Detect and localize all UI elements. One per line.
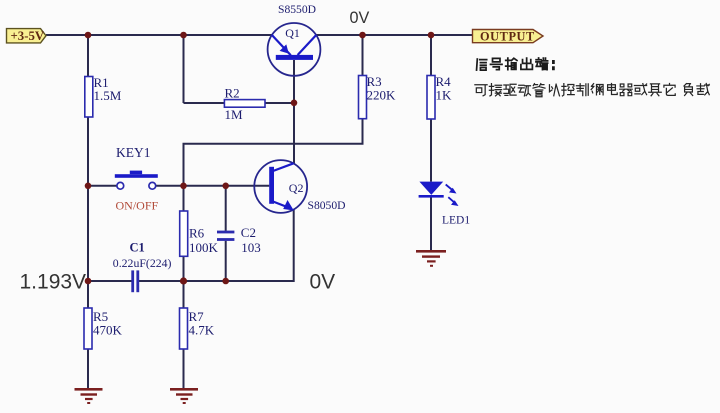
wire R6 leads	[183, 186, 185, 211]
resistor R1	[85, 75, 122, 117]
wire KEY1 to Q2 base	[156, 185, 269, 187]
wire R3 top lead	[362, 35, 364, 76]
junction C2 top / Q2 base wire	[222, 183, 229, 190]
junction +V rail / R2 branch	[180, 32, 187, 39]
wire C2 leads	[225, 186, 227, 231]
annotation chinese body 可接驱动管以控制继电器或其它 负载	[475, 83, 709, 96]
transistor Q1 (S8550D PNP)	[268, 3, 321, 76]
svg-text:R2: R2	[225, 86, 240, 101]
ground under R7	[170, 388, 198, 404]
power tag +3-5V	[7, 29, 47, 43]
svg-text:Q1: Q1	[285, 26, 300, 40]
svg-text:S8550D: S8550D	[278, 3, 316, 16]
resistor R6	[180, 211, 219, 256]
resistor R4	[427, 74, 452, 119]
junction output rail / R4	[428, 32, 435, 39]
junction C2 bottom / 0V wire	[222, 278, 229, 285]
wire R7 leads	[183, 281, 185, 308]
svg-text:0V: 0V	[310, 270, 336, 293]
wire R3 bottom to KEY node	[184, 119, 363, 186]
svg-text:0V: 0V	[350, 9, 370, 27]
svg-text:1K: 1K	[436, 88, 453, 103]
diode LED1	[419, 182, 471, 227]
output tag OUTPUT	[473, 29, 544, 43]
wire C1 left lead	[88, 280, 132, 282]
capacitor C2	[217, 225, 261, 255]
svg-text:220K: 220K	[367, 88, 397, 103]
resistor R5	[84, 308, 123, 349]
junction output rail / R3	[359, 32, 366, 39]
resistor R2	[224, 86, 265, 123]
switch KEY1	[115, 145, 159, 213]
svg-text:S8050D: S8050D	[308, 199, 346, 212]
wire top rail right (Q1 collector to OUTPUT)	[316, 34, 473, 36]
svg-text:Q2: Q2	[289, 181, 304, 195]
wire R5 bottom lead	[87, 349, 89, 388]
junction Q1 base / R2 / Q2 collector	[291, 100, 298, 107]
svg-text:KEY1: KEY1	[116, 145, 151, 160]
ground under R5	[75, 388, 103, 404]
junction KEY1 / R6 / R3 return	[180, 183, 187, 190]
annotation chinese heading 信号输出端:	[477, 58, 554, 70]
wire Q1 base to Q2 collector	[293, 60, 295, 163]
junction left rail / KEY1	[85, 183, 92, 190]
svg-text:103: 103	[241, 240, 260, 255]
resistor R7	[180, 308, 215, 349]
svg-text:0.22uF(224): 0.22uF(224)	[113, 256, 172, 270]
junction C1 / R6 / R7 (1.193V node)	[180, 277, 187, 284]
wire 0V emitter rail	[139, 210, 294, 281]
svg-text:470K: 470K	[93, 323, 123, 338]
svg-text:+3-5V: +3-5V	[11, 29, 45, 43]
wire R4 leads / LED chain	[430, 35, 432, 76]
resistor R3	[359, 74, 397, 119]
ground under LED1	[416, 250, 446, 267]
svg-text:1.5M: 1.5M	[94, 88, 122, 103]
wire R2 branch vertical	[183, 35, 185, 103]
svg-text:C1: C1	[130, 241, 145, 255]
wire left rail vertical	[87, 35, 89, 349]
svg-text:OUTPUT: OUTPUT	[480, 29, 535, 43]
svg-text:100K: 100K	[189, 240, 219, 255]
junction left rail / C1	[85, 278, 92, 285]
svg-text:1.193V: 1.193V	[20, 270, 87, 293]
svg-text:R6: R6	[189, 226, 205, 241]
transistor Q2 (S8050D NPN)	[254, 160, 345, 213]
svg-text:1M: 1M	[225, 107, 244, 122]
wire KEY1 row	[88, 185, 117, 187]
wire R2 left lead	[184, 102, 225, 104]
capacitor C1	[113, 241, 172, 293]
wire R2 right lead	[265, 102, 294, 104]
junction +V rail / R1	[85, 32, 92, 39]
wire top rail left (+3-5V to Q1 emitter)	[46, 34, 272, 36]
svg-text:4.7K: 4.7K	[189, 323, 215, 338]
svg-text:LED1: LED1	[442, 215, 470, 227]
svg-text:C2: C2	[241, 225, 256, 240]
svg-text:ON/OFF: ON/OFF	[116, 199, 159, 213]
